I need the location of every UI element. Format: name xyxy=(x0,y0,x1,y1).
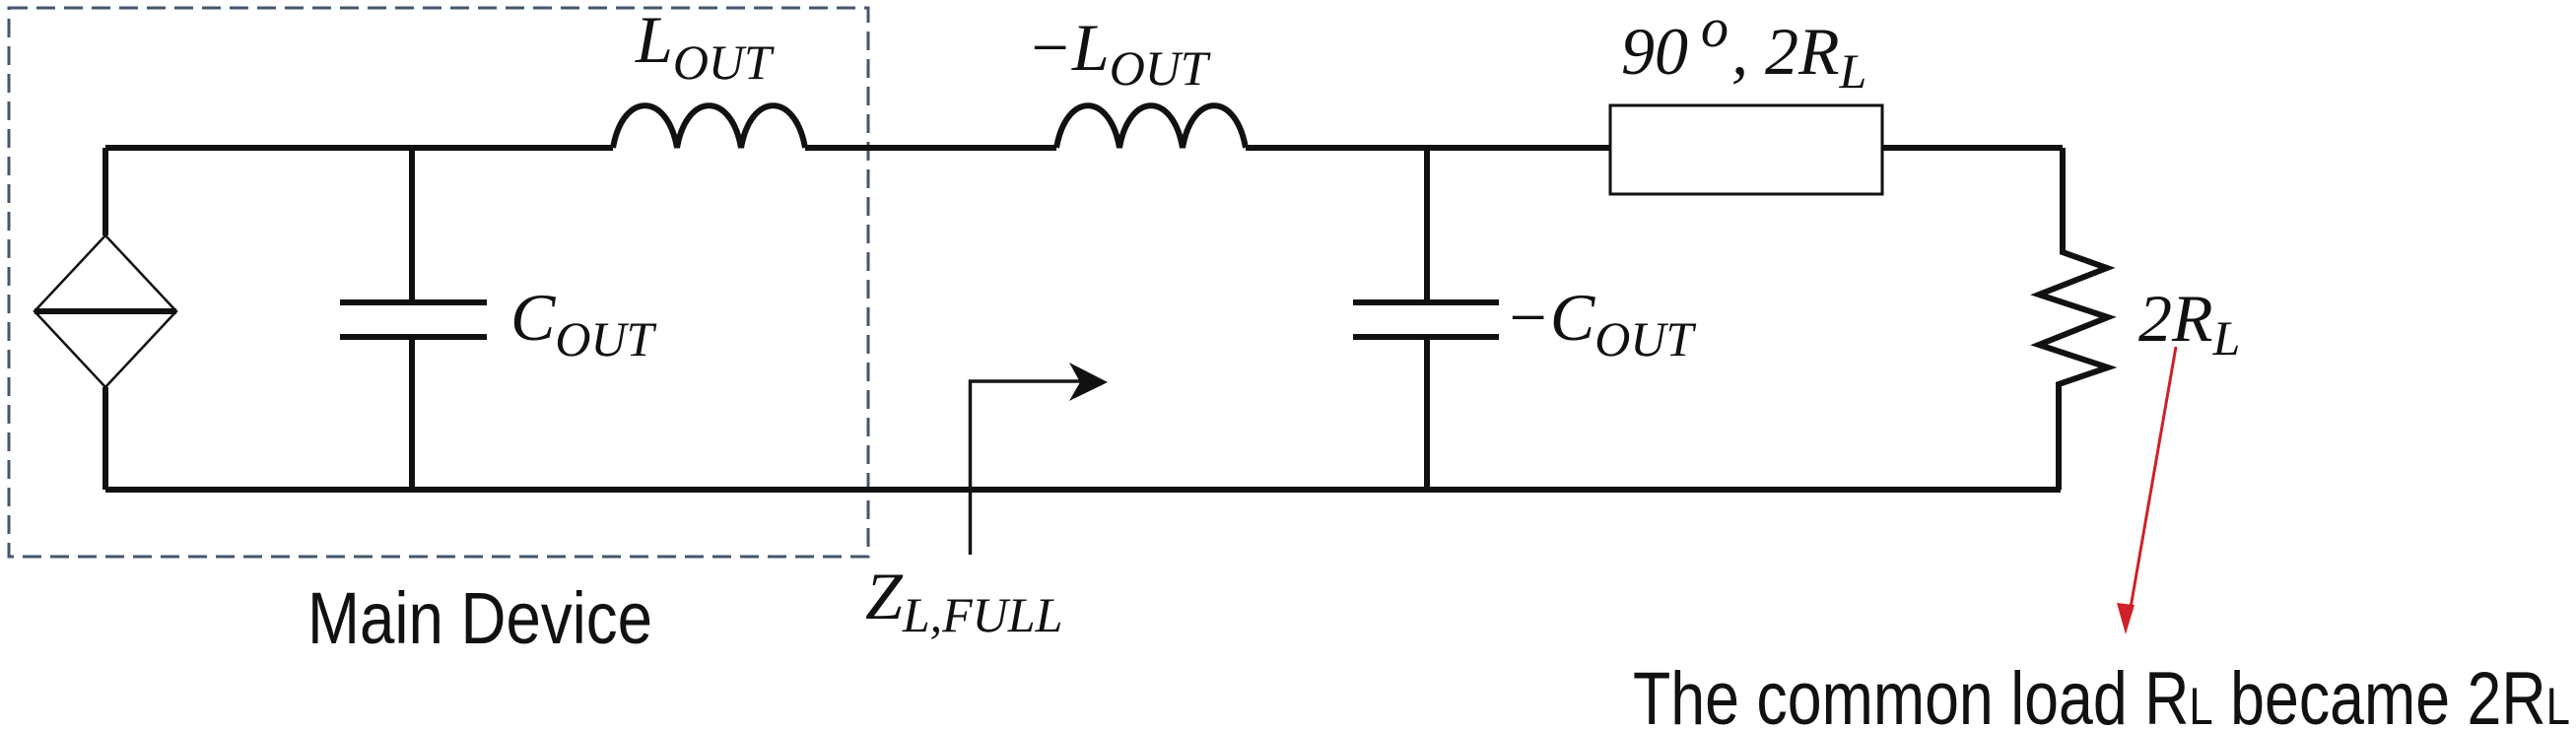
svg-text:90o, 2RL: 90o, 2RL xyxy=(1621,0,1866,99)
svg-text:Main Device: Main Device xyxy=(307,577,652,659)
svg-text:The common load RL became 2RL: The common load RL became 2RL xyxy=(1633,657,2570,729)
